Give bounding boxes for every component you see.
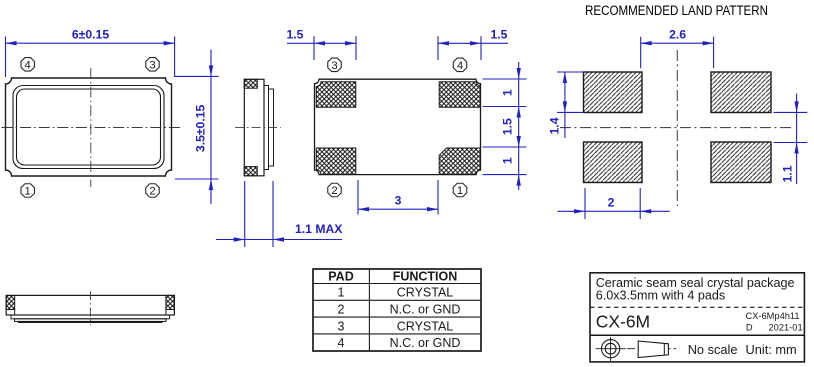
svg-text:D: D [746,322,753,332]
svg-text:1.1 MAX: 1.1 MAX [295,222,343,236]
land pad top-left [584,72,643,113]
projection symbol crosshair [596,337,626,362]
svg-text:1.5: 1.5 [491,28,508,42]
projection symbol cone [638,341,668,358]
svg-text:CX-6M: CX-6M [596,312,650,332]
pad number 3 (bottom view) [328,58,341,72]
dimension 3 (bottom view) [358,180,438,215]
svg-text:2: 2 [338,303,345,317]
land pad bottom-left [584,142,643,183]
svg-text:3.5±0.15: 3.5±0.15 [194,105,208,153]
svg-text:2: 2 [608,196,615,210]
svg-text:N.C. or GND: N.C. or GND [390,336,461,350]
front view body [6,295,174,315]
top view horizontal center line [2,127,183,129]
svg-text:N.C. or GND: N.C. or GND [390,303,461,317]
svg-text:1: 1 [501,89,515,96]
projection symbol circles [602,340,620,358]
svg-text:3: 3 [149,59,155,71]
land pattern vertical center line [676,50,678,206]
pad number 2 (top view) [146,184,159,198]
svg-text:3: 3 [338,319,345,333]
side view top pad [244,79,257,88]
projection symbol center line [627,348,676,350]
svg-text:1.5: 1.5 [501,118,515,135]
table row lines [313,284,481,334]
land pad bottom-right [711,142,771,183]
top view inner cavity ring 1 [13,86,164,169]
svg-text:2021-01: 2021-01 [769,322,803,332]
side view center line [235,126,281,128]
svg-text:PAD: PAD [328,270,353,284]
svg-text:4: 4 [338,336,345,350]
bottom view pad 1 (bottom-right, chamfered corner) [439,148,480,174]
svg-text:1: 1 [457,185,463,197]
pad number 3 (top view) [146,58,159,72]
side view lid step 1 [264,86,269,170]
svg-text:6.0x3.5mm with 4 pads: 6.0x3.5mm with 4 pads [596,289,726,303]
dimension 1.5 (bottom view left) [287,36,356,60]
dimension 2 [557,188,669,219]
svg-text:1: 1 [25,186,31,198]
svg-text:6±0.15: 6±0.15 [72,28,109,42]
svg-text:1: 1 [501,157,515,164]
svg-text:1: 1 [338,286,345,300]
dimension 1.4 [557,72,584,138]
title block dashed separator [590,306,804,308]
svg-text:Unit: mm: Unit: mm [746,342,797,357]
side view body [244,79,264,176]
svg-text:1.4: 1.4 [548,117,562,134]
pad number 4 (bottom view) [453,58,466,72]
land pad top-right [711,72,771,113]
land pattern horizontal center line [560,127,792,129]
front view right pad [166,295,175,309]
front view center line [89,291,91,325]
table outer border [313,269,481,351]
dimension 1.1 MAX [216,181,342,247]
svg-text:2: 2 [331,185,337,197]
top view vertical center line [90,68,92,187]
title block solid separator [590,334,804,336]
svg-text:RECOMMENDED LAND PATTERN: RECOMMENDED LAND PATTERN [585,3,768,18]
pad number 2 (bottom view) [328,183,341,197]
bottom view pad 2 (bottom-left) [316,148,356,174]
front view base bottom line [18,321,163,323]
dimension 2.6 [641,37,714,68]
svg-text:CRYSTAL: CRYSTAL [397,286,454,300]
chained dimensions 1 / 1.5 / 1 (bottom view right side) [483,62,527,190]
svg-text:No scale: No scale [688,342,738,357]
dimension 1.1 [774,94,808,185]
svg-text:4: 4 [25,59,31,71]
front view left pad [6,295,15,309]
pad number 1 (bottom view) [453,183,466,197]
front view base step 2 [15,319,167,322]
side view lid step 2 [269,89,274,166]
title block border [590,273,804,362]
bottom view pad 4 (top-right) [439,82,480,107]
svg-text:4: 4 [457,60,463,72]
svg-text:FUNCTION: FUNCTION [393,270,458,284]
bottom view pad 3 (top-left) [316,82,356,107]
pad number 4 (top view) [21,58,34,72]
top view body outline [6,78,172,176]
svg-text:2: 2 [149,186,155,198]
table column divider [368,269,370,351]
svg-text:3: 3 [331,60,337,72]
bottom view body outline [315,79,481,174]
top view inner cavity ring 2 [17,89,161,165]
pad number 1 (top view) [21,184,34,198]
dimension 3.5±0.15 [175,50,219,205]
svg-text:3: 3 [395,194,402,208]
svg-text:2.6: 2.6 [669,28,686,42]
svg-text:1.5: 1.5 [287,28,304,42]
side view bottom pad [244,167,257,176]
svg-text:CX-6Mp4h11: CX-6Mp4h11 [746,311,800,321]
front view base step 1 [11,315,170,319]
front view pad lower edges [15,310,166,316]
svg-text:1.1: 1.1 [781,165,795,182]
dimension 6±0.15 [6,37,219,78]
svg-text:CRYSTAL: CRYSTAL [397,319,454,333]
dimension 1.5 (bottom view right) [438,36,508,60]
